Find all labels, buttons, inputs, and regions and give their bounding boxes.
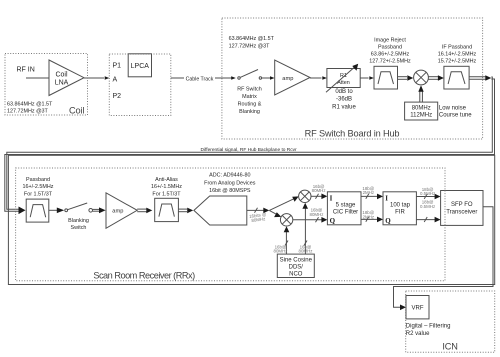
wire CIC I to FIR with bus tick	[361, 194, 383, 200]
outer receiver enclosure box	[8, 155, 494, 284]
svg-text:R1 value: R1 value	[332, 104, 356, 110]
Scan Room Receiver box	[16, 168, 445, 281]
op-amp Coil LNA	[49, 60, 84, 96]
svg-text:16bit @ 80MSPS: 16bit @ 80MSPS	[209, 188, 251, 194]
svg-text:Image Reject: Image Reject	[374, 37, 406, 43]
svg-text:DDS/: DDS/	[289, 264, 304, 270]
RF Switch Board in Hub box	[222, 18, 483, 139]
wire differential backplane run	[5, 77, 495, 214]
wire DDS sine to mixer Q	[284, 226, 290, 254]
wire amp to anti-alias (differential)	[137, 208, 152, 214]
label hub input frequencies	[229, 36, 275, 50]
label 18b@ 0.5MHz (Q)	[420, 200, 435, 209]
wire mixer Q to CIC with bus tick	[293, 217, 328, 223]
label 16b@ 80MHz (sine)	[274, 244, 288, 253]
svg-text:80MHz: 80MHz	[412, 105, 431, 111]
wire LO to mixer (differential)	[418, 85, 423, 102]
label Coil	[69, 106, 84, 116]
svg-text:CIC Filter: CIC Filter	[333, 209, 358, 215]
ADC converter	[194, 196, 247, 225]
wire mixer to IF filter (differential)	[428, 75, 444, 80]
wire mixer I to CIC with bus tick	[311, 194, 327, 200]
svg-text:100 tap: 100 tap	[390, 202, 411, 208]
svg-text:LNA: LNA	[55, 80, 69, 87]
wire IF filter output (differential)	[469, 75, 491, 80]
label 16b@ 80MHz (I)	[312, 184, 326, 193]
switch RF Switch Matrix	[231, 70, 274, 80]
svg-text:ICN: ICN	[442, 342, 457, 352]
wire SFP to VRF	[394, 207, 494, 310]
wire amp to R1 Atten	[310, 76, 327, 80]
svg-text:For 1.5T/3T: For 1.5T/3T	[24, 192, 53, 198]
svg-text:16+/-1.5MHz: 16+/-1.5MHz	[151, 184, 182, 190]
svg-text:Switch: Switch	[71, 225, 87, 231]
wire filter to blanking switch	[49, 208, 64, 214]
svg-text:16+/-2.5MHz: 16+/-2.5MHz	[22, 184, 53, 190]
svg-text:127.72MHz @3T: 127.72MHz @3T	[229, 43, 271, 49]
svg-text:2MHz: 2MHz	[363, 190, 374, 195]
svg-text:LPCA: LPCA	[131, 63, 150, 70]
svg-text:Routing &: Routing &	[238, 102, 262, 108]
svg-text:SFP FO: SFP FO	[451, 202, 473, 208]
wire CIC Q to FIR with bus tick	[361, 217, 383, 223]
svg-text:-36dB: -36dB	[336, 97, 352, 103]
svg-text:5 stage: 5 stage	[336, 202, 356, 208]
svg-text:Low noise: Low noise	[439, 105, 467, 111]
svg-text:I: I	[385, 195, 388, 203]
svg-text:Coil: Coil	[69, 106, 84, 116]
svg-text:80MHz: 80MHz	[299, 249, 313, 254]
svg-text:Coil: Coil	[55, 72, 68, 79]
svg-text:15.72+/-2.5MHz: 15.72+/-2.5MHz	[438, 58, 477, 64]
wire into Coil LNA	[26, 77, 49, 79]
svg-text:127.72+/-2.5MHz: 127.72+/-2.5MHz	[369, 58, 411, 64]
svg-text:112MHz: 112MHz	[410, 113, 432, 119]
amplifier amp (receiver)	[106, 193, 137, 229]
filter 100 tap FIR	[383, 192, 416, 225]
svg-text:Cable Track: Cable Track	[186, 77, 214, 83]
svg-text:ADC: AD9446-80: ADC: AD9446-80	[209, 173, 250, 179]
label Anti-Alias 16+/-1.5MHz	[151, 177, 182, 198]
svg-text:2MHz: 2MHz	[363, 215, 374, 220]
svg-text:Scan Room Receiver (RRx): Scan Room Receiver (RRx)	[93, 271, 195, 281]
svg-text:Passband: Passband	[378, 44, 402, 50]
svg-text:amp: amp	[112, 209, 123, 215]
Coil box	[5, 54, 88, 116]
wire DDS cosine to mixer I	[302, 203, 308, 254]
mixer (hub)	[414, 70, 429, 85]
svg-text:Anti-Alias: Anti-Alias	[155, 177, 178, 183]
oscillator Sine Cosine DDS/NCO	[277, 254, 314, 277]
svg-text:R2 value: R2 value	[406, 331, 430, 337]
label IF Passband	[438, 44, 477, 64]
label 16bits @ 80MHz	[249, 212, 268, 224]
svg-text:RF IN: RF IN	[17, 67, 35, 74]
wire Cable Track	[171, 74, 232, 83]
label Low noise Course tune	[439, 105, 472, 118]
label RF Switch Matrix Routing & Blanking	[237, 87, 262, 116]
svg-text:Sine Cosine: Sine Cosine	[280, 257, 313, 263]
wire anti-alias to ADC (differential)	[178, 208, 193, 214]
label Image Reject Passband	[369, 37, 411, 64]
wire scan room border over SFP	[444, 191, 446, 226]
label R1 attenuation range	[332, 89, 356, 110]
filter passband (receiver)	[26, 199, 49, 222]
svg-text:80MHz: 80MHz	[310, 212, 324, 217]
label 18b@ 0.5MHz (I)	[420, 187, 435, 196]
attenuator R1 Atten	[326, 64, 360, 93]
label RF IN	[17, 67, 35, 74]
svg-text:VRF: VRF	[412, 306, 424, 312]
label Passband 16+/-2.5MHz	[22, 177, 53, 198]
svg-text:0.5MHz: 0.5MHz	[420, 191, 435, 196]
svg-text:Blanking: Blanking	[68, 218, 89, 224]
svg-text:63.86+/-2.5MHz: 63.86+/-2.5MHz	[371, 51, 410, 57]
svg-text:From Analog Devices: From Analog Devices	[204, 180, 256, 186]
label Digital Filtering R2 value	[406, 323, 451, 337]
label 16b@ 80MHz (cosine)	[299, 244, 313, 253]
svg-text:80MHz: 80MHz	[274, 249, 288, 254]
svg-text:FIR: FIR	[395, 209, 405, 215]
oscillator 80MHz 112MHz	[405, 102, 438, 120]
svg-text:Matrix: Matrix	[242, 94, 257, 100]
wire FIR Q to SFP with bus tick	[416, 217, 440, 223]
filter image reject	[374, 66, 398, 89]
label coil frequencies	[7, 102, 53, 115]
svg-text:RF Switch: RF Switch	[237, 87, 262, 93]
svg-text:Blanking: Blanking	[239, 109, 260, 115]
switch blanking	[65, 203, 106, 213]
wire FIR I to SFP with bus tick	[416, 194, 440, 200]
svg-text:R1: R1	[340, 73, 347, 79]
svg-text:Course tune: Course tune	[439, 113, 472, 119]
wire branch to I mixer	[269, 196, 298, 210]
svg-text:63.864MHz @1.5T: 63.864MHz @1.5T	[229, 36, 275, 42]
port box P1 A P2	[109, 54, 171, 116]
label Blanking Switch	[68, 218, 89, 231]
svg-text:P1: P1	[113, 63, 122, 70]
wire R1 Atten to image reject filter	[360, 76, 374, 80]
mixer Q	[280, 214, 292, 226]
svg-text:IF Passband: IF Passband	[442, 44, 472, 50]
amplifier amp (hub)	[275, 60, 310, 95]
svg-text:Differential signal, RF Hub Ba: Differential signal, RF Hub Backplane to…	[201, 147, 298, 153]
svg-text:Transceiver: Transceiver	[446, 210, 477, 216]
label 18b@ 2MHz (Q)	[362, 210, 374, 219]
svg-text:amp: amp	[282, 76, 293, 82]
svg-text:Q: Q	[385, 217, 391, 225]
wire branch to Q mixer	[269, 210, 281, 217]
svg-text:NCO: NCO	[289, 271, 303, 277]
mixer I	[299, 190, 311, 202]
svg-text:63.864MHz @1.5T: 63.864MHz @1.5T	[7, 102, 53, 108]
svg-text:Passband: Passband	[26, 177, 50, 183]
filter IF passband	[444, 66, 469, 89]
svg-text:0dB to: 0dB to	[335, 89, 353, 95]
label ADC AD9446-80	[204, 173, 256, 194]
label 18b@ 2MHz (I)	[362, 186, 374, 195]
ICN box	[406, 291, 495, 352]
svg-text:16.14+/-2.5MHz: 16.14+/-2.5MHz	[438, 51, 477, 57]
filter anti-alias	[155, 198, 179, 221]
svg-text:Digital – Filtering: Digital – Filtering	[406, 323, 451, 329]
svg-text:80MHz: 80MHz	[312, 188, 326, 193]
svg-text:I: I	[330, 195, 333, 203]
wire Coil LNA to port A	[84, 76, 109, 80]
svg-text:P2: P2	[113, 93, 122, 100]
svg-text:For 1.5T/3T: For 1.5T/3T	[152, 192, 181, 198]
VRF box	[406, 296, 429, 319]
svg-text:Q: Q	[330, 217, 336, 225]
svg-text:0.5MHz: 0.5MHz	[420, 204, 435, 209]
wire filter to mixer (differential)	[398, 75, 414, 80]
svg-text:127.72MHz @3T: 127.72MHz @3T	[7, 109, 49, 115]
transceiver SFP FO	[441, 191, 483, 226]
wire ADC output with bus tick	[247, 208, 269, 214]
label Differential signal	[201, 147, 298, 153]
LPCA box	[128, 54, 151, 77]
svg-text:A: A	[113, 77, 118, 84]
filter 5 stage CIC	[327, 192, 361, 225]
label 16b@ 80MHz (Q)	[310, 208, 324, 217]
svg-text:RF Switch Board in Hub: RF Switch Board in Hub	[305, 129, 400, 139]
